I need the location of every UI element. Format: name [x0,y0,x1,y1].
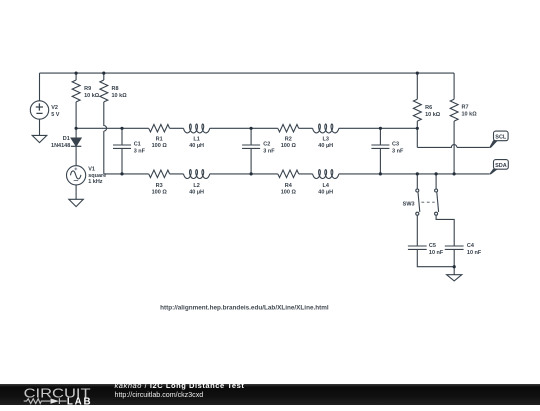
svg-text:V2: V2 [51,105,58,111]
svg-text:10 kΩ: 10 kΩ [112,93,128,99]
svg-text:1N4148: 1N4148 [51,143,70,149]
svg-text:L2: L2 [193,183,199,189]
svg-text:100 Ω: 100 Ω [152,190,168,196]
svg-text:R4: R4 [285,183,293,189]
svg-text:10 kΩ: 10 kΩ [84,93,100,99]
svg-text:C1: C1 [134,142,141,148]
svg-text:R3: R3 [156,183,163,189]
svg-text:10 kΩ: 10 kΩ [462,111,478,117]
svg-text:3 nF: 3 nF [263,148,275,154]
svg-text:40 µH: 40 µH [189,143,204,149]
svg-text:100 Ω: 100 Ω [281,143,297,149]
svg-text:SDA: SDA [495,163,507,169]
svg-text:R1: R1 [156,136,163,142]
svg-text:C3: C3 [392,142,399,148]
svg-text:3 nF: 3 nF [134,148,146,154]
svg-text:square: square [88,173,106,179]
svg-text:R9: R9 [84,86,91,92]
svg-text:L1: L1 [193,136,199,142]
svg-text:SW3: SW3 [403,201,415,207]
svg-text:D1: D1 [63,136,70,142]
svg-text:http://alignment.hep.brandeis.: http://alignment.hep.brandeis.edu/Lab/XL… [160,305,329,311]
svg-text:40 µH: 40 µH [318,190,333,196]
svg-text:3 nF: 3 nF [392,148,404,154]
svg-text:R2: R2 [285,136,292,142]
svg-text:C5: C5 [429,243,436,249]
svg-text:10 kΩ: 10 kΩ [425,112,441,118]
svg-text:40 µH: 40 µH [189,190,204,196]
svg-text:C4: C4 [467,243,475,249]
svg-text:SCL: SCL [495,135,507,141]
svg-text:R6: R6 [425,105,432,111]
svg-text:10 nF: 10 nF [467,250,482,256]
svg-text:10 nF: 10 nF [429,250,444,256]
svg-text:1 kHz: 1 kHz [88,179,103,185]
svg-text:5 V: 5 V [51,112,60,118]
svg-text:100 Ω: 100 Ω [152,143,168,149]
svg-text:100 Ω: 100 Ω [281,190,297,196]
svg-text:V1: V1 [88,166,95,172]
svg-text:L4: L4 [322,183,329,189]
svg-text:R8: R8 [112,86,119,92]
svg-text:40 µH: 40 µH [318,143,333,149]
svg-text:L3: L3 [322,136,328,142]
svg-text:C2: C2 [263,142,270,148]
svg-text:LAB: LAB [67,396,93,406]
svg-text:R7: R7 [462,104,469,110]
